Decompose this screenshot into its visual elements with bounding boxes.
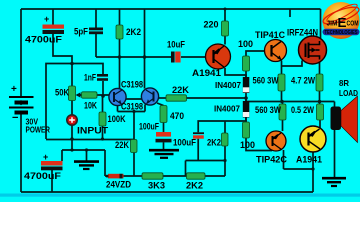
svg-text:8R: 8R — [339, 78, 349, 88]
wire base line 10K to Q1 — [77, 94, 110, 96]
capacitor 4700uF #2 — [41, 152, 63, 170]
wire left rail lower — [20, 114, 22, 192]
mosfet IRFZ44N — [299, 36, 327, 64]
svg-text:IN4007: IN4007 — [214, 104, 240, 114]
resistor 560 3W #1 — [278, 74, 285, 91]
resistor 10K — [82, 92, 98, 98]
wire diode junction jog — [245, 98, 247, 102]
wire 100K bottom — [102, 126, 104, 139]
wire cap1 to ground — [163, 142, 165, 149]
capacitor 100uF #1 — [156, 132, 172, 142]
svg-text:POWER: POWER — [26, 125, 51, 135]
wire signal line y57 — [96, 56, 171, 58]
svg-text:220: 220 — [204, 20, 219, 30]
svg-text:IRFZ44N: IRFZ44N — [287, 28, 318, 38]
svg-text:4700uF: 4700uF — [25, 35, 63, 45]
wire 2K2-3 bottom through to zener line — [224, 146, 226, 176]
wire 220 column top — [224, 9, 226, 21]
wire mosfet gate link — [282, 61, 303, 67]
resistor 100K — [99, 112, 106, 126]
svg-text:5pF: 5pF — [74, 27, 88, 37]
wire 22K2 bottom to zener line — [133, 153, 135, 177]
svg-text:+: + — [43, 152, 48, 162]
zener diode 24VZD — [106, 174, 124, 179]
svg-text:10uF: 10uF — [167, 40, 185, 50]
svg-text:10K: 10K — [84, 101, 97, 111]
svg-text:C3198: C3198 — [121, 102, 143, 112]
diode IN4007 #2 — [243, 101, 250, 118]
resistor 3K3 — [142, 173, 163, 179]
wire diode2 bottom hook to 2K2-3 — [198, 118, 246, 133]
wire output line right — [246, 101, 335, 103]
svg-text:100: 100 — [240, 140, 255, 150]
wire 10uF to A1941 base — [181, 56, 206, 58]
svg-text:0.5 2W: 0.5 2W — [291, 105, 314, 115]
wire 2K2-1 column — [119, 9, 121, 25]
wire 100K top — [102, 96, 104, 112]
input jack — [67, 115, 77, 125]
wire speaker column — [334, 102, 336, 178]
battery B1 30V — [9, 84, 34, 124]
wire 470 bottom to 100uF1 — [163, 123, 165, 133]
svg-text:2K2: 2K2 — [207, 138, 221, 148]
capacitor 5pF — [89, 28, 103, 35]
transistor A1941 #2 — [300, 126, 326, 152]
svg-text:50K: 50K — [55, 88, 69, 98]
svg-text:JIM: JIM — [327, 21, 338, 28]
wire 4700uF2 bottom — [51, 170, 53, 192]
wire Q1 collector to Q2 base — [124, 98, 142, 100]
svg-text:100K: 100K — [108, 114, 126, 124]
wire line2 to 4700uF2 — [61, 150, 63, 161]
svg-text:2K2: 2K2 — [126, 27, 141, 37]
svg-text:470: 470 — [170, 111, 184, 121]
wire Q1 emitter drop — [117, 106, 119, 112]
wire 4.7 bottom to output — [319, 91, 321, 102]
wire 220 bottom to A1941 — [224, 36, 226, 45]
svg-text:22K: 22K — [115, 140, 129, 150]
wire mid line y160 — [186, 160, 226, 162]
ground G3 — [322, 178, 346, 186]
wire 1nF bottom to base line — [102, 81, 104, 96]
capacitor 1nF — [97, 74, 108, 81]
svg-text:100uF: 100uF — [173, 138, 196, 148]
speaker 8R LOAD — [331, 96, 358, 143]
capacitor 10uF — [171, 52, 181, 63]
wire pot bottom to input jack — [71, 101, 73, 116]
wire 22K2 top — [133, 112, 135, 140]
wire mosfet source — [319, 62, 321, 75]
resistor 2K2 #4 — [187, 173, 206, 179]
svg-text:1nF: 1nF — [84, 73, 96, 83]
wire ground2 drop — [86, 150, 88, 161]
wire 100uF2 bottom — [197, 139, 199, 161]
wire A1941-2 bottom column — [312, 152, 314, 192]
wire 560-2 bottom to TIP42C — [282, 120, 284, 131]
wire zener line — [105, 175, 225, 177]
wire output line left y98 — [159, 97, 167, 99]
wire 2K2-3 top — [224, 121, 226, 133]
wire mid line left drop — [185, 161, 187, 176]
wire pot top — [71, 64, 73, 87]
wire TIP41C emitter — [281, 61, 283, 75]
wire 0.5 top — [319, 102, 321, 105]
wire Q2 collector column — [144, 9, 146, 89]
svg-text:A1941: A1941 — [296, 155, 322, 165]
bottom blue band — [0, 194, 360, 197]
wire 22K1 to diode junction — [187, 97, 247, 99]
wire 100ohm-1 bottom lead — [245, 71, 247, 80]
wire 4700uF1 column top — [52, 9, 54, 25]
transistor TIP41C — [265, 40, 287, 62]
svg-text:22K: 22K — [172, 85, 190, 95]
wire 560-2 top — [282, 102, 284, 105]
wire mosfet drain corner — [320, 9, 322, 40]
wire emitter join line — [284, 168, 314, 170]
svg-text:+: + — [44, 14, 49, 24]
svg-text:E: E — [338, 15, 347, 30]
wire bottom rail — [21, 191, 313, 193]
svg-text:LOAD: LOAD — [339, 88, 358, 98]
svg-text:A1941: A1941 — [192, 68, 221, 78]
capacitor 4700uF #1 — [43, 14, 65, 34]
resistor 2K2 #1 — [116, 25, 123, 39]
svg-text:−: − — [12, 112, 18, 124]
wire line1 — [46, 139, 134, 141]
potentiometer 50K — [69, 86, 82, 101]
wire rail stub — [289, 9, 291, 17]
wire line2 — [62, 149, 105, 151]
wire 5pF column — [95, 9, 97, 28]
svg-text:COM: COM — [347, 21, 359, 28]
svg-text:3K3: 3K3 — [148, 181, 165, 191]
wire 560-1 bottom to output — [281, 91, 283, 102]
resistor 4.7 2W — [316, 74, 323, 91]
wire 2K2-1 bottom to collector Q1 — [119, 39, 121, 89]
wire Q2 emitter drop — [144, 105, 146, 112]
svg-text:100uF: 100uF — [139, 122, 159, 132]
resistor 2K2 #3 — [222, 133, 229, 146]
logo JIMEcom — [321, 1, 360, 39]
wire Q2 emitter to 470 — [157, 103, 164, 106]
svg-text:TIP41C: TIP41C — [255, 30, 285, 40]
wire 100ohm top to TIP41C base — [246, 51, 265, 56]
svg-text:INPUT: INPUT — [77, 126, 109, 136]
ground G2 — [74, 162, 99, 169]
transistor C3198 #2 — [141, 88, 158, 105]
svg-text:IN4007: IN4007 — [215, 80, 241, 90]
wire 100ohm-2 top — [245, 102, 247, 123]
transistor TIP42C — [266, 131, 286, 151]
svg-text:100: 100 — [238, 39, 253, 49]
wire TIP42C emitter — [283, 150, 285, 169]
wire line2 right end down to zener line — [104, 150, 106, 176]
svg-text:C3198: C3198 — [121, 80, 143, 90]
resistor 100 #1 — [243, 56, 250, 71]
wire node branch left — [46, 64, 72, 140]
resistor 470 — [160, 106, 167, 123]
wire jack column line1-line2 — [71, 139, 73, 150]
wire left rail — [20, 9, 22, 97]
svg-text:4700uF: 4700uF — [24, 171, 62, 181]
wire diode1 bottom junction — [245, 93, 247, 101]
svg-text:2K2: 2K2 — [186, 181, 203, 191]
transistor C3198 #1 — [109, 88, 126, 105]
ground G1 — [149, 150, 179, 158]
wire 100ohm-2 bottom to TIP42C base — [246, 138, 272, 151]
resistor 22K #1 horizontal — [166, 95, 187, 101]
resistor 220 — [222, 21, 229, 36]
svg-text:24VZD: 24VZD — [106, 180, 131, 190]
diode IN4007 #1 — [243, 77, 250, 93]
wire 4700uF1 to input network — [53, 34, 72, 64]
wire node branch right to 1nF — [72, 64, 103, 75]
wire jack bottom to line1 — [71, 125, 73, 139]
capacitor 100uF #2 — [193, 132, 204, 138]
svg-text:560 3W: 560 3W — [255, 105, 281, 115]
resistor 100 #2 — [243, 122, 250, 138]
wire 5pF bottom — [95, 34, 97, 57]
svg-text:TIP42C: TIP42C — [256, 155, 288, 165]
wire 0.5 bottom to A1941-2 — [319, 120, 321, 129]
svg-text:4.7 2W: 4.7 2W — [291, 76, 315, 86]
svg-text:560 3W: 560 3W — [253, 76, 279, 86]
resistor 560 3W #2 — [279, 104, 286, 120]
wire A1941 bottom hook to 100 ohm — [225, 68, 246, 80]
resistor 22K #2 vertical — [131, 140, 138, 153]
transistor A1941 #1 — [206, 44, 231, 69]
wire emitter line — [118, 111, 146, 113]
svg-text:+: + — [11, 84, 17, 95]
wire top rail — [21, 8, 321, 10]
resistor 0.5 2W — [317, 104, 324, 120]
svg-text:TECHNOLOGIES: TECHNOLOGIES — [325, 30, 359, 36]
